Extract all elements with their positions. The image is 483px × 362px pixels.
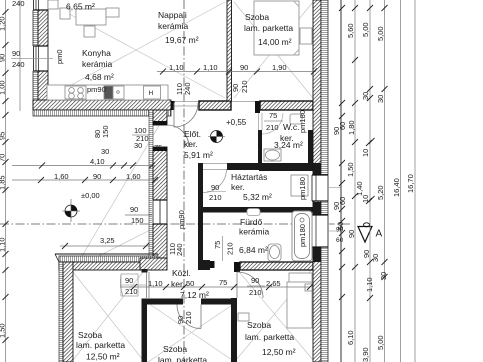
svg-text:90: 90	[240, 63, 248, 72]
svg-text:60: 60	[338, 122, 347, 130]
door jambs	[153, 121, 167, 125]
svg-text:210: 210	[249, 288, 262, 297]
washing machine haztartas	[291, 175, 308, 196]
room label szoba top	[244, 12, 293, 47]
svg-text:1,10: 1,10	[0, 237, 7, 252]
svg-text:210: 210	[125, 287, 138, 296]
wall left exterior	[11, 0, 53, 110]
wall kitchen bottom	[33, 100, 171, 116]
svg-text:ker.: ker.	[231, 182, 245, 192]
wall right exterior	[311, 0, 341, 362]
svg-text:210: 210	[184, 311, 193, 324]
svg-text:ker.: ker.	[171, 279, 185, 289]
svg-text:150: 150	[131, 216, 144, 225]
rotated size labels	[55, 49, 307, 324]
svg-text:240: 240	[175, 243, 184, 256]
L corner furdo bottom left	[198, 260, 210, 270]
bathtub	[292, 211, 312, 261]
window left top y0-10	[32, 0, 49, 10]
svg-text:30: 30	[371, 254, 380, 262]
wall terrace bottom	[55, 254, 158, 270]
svg-text:10: 10	[361, 149, 370, 157]
svg-text:75: 75	[269, 111, 277, 120]
right chain rotated labels	[332, 22, 415, 362]
svg-text:60: 60	[338, 197, 347, 205]
svg-text:50: 50	[186, 279, 194, 288]
bed top-right	[254, 1, 312, 55]
svg-text:7,12 m²: 7,12 m²	[180, 290, 209, 300]
svg-text:90: 90	[130, 205, 138, 214]
svg-text:90: 90	[362, 250, 371, 258]
svg-text:210: 210	[209, 193, 222, 202]
svg-text:Szoba: Szoba	[245, 12, 269, 22]
svg-text:5,32 m²: 5,32 m²	[243, 192, 272, 202]
wc washbasin	[264, 149, 281, 161]
window left y46-71	[32, 46, 49, 71]
svg-text:16,40: 16,40	[392, 178, 401, 197]
svg-text:1,80: 1,80	[347, 120, 356, 135]
svg-text:3,25: 3,25	[100, 236, 115, 245]
radiator	[238, 313, 249, 321]
svg-text:95: 95	[0, 132, 7, 140]
left dimension chains	[6, 0, 21, 362]
wardrobe room right	[289, 273, 312, 283]
svg-text:lam. parketta: lam. parketta	[245, 332, 294, 342]
svg-text:90: 90	[231, 84, 240, 92]
wall passage left lower join	[140, 258, 167, 270]
svg-text:pm90: pm90	[87, 85, 106, 94]
window right furdo	[311, 215, 329, 247]
svg-text:5,00: 5,00	[376, 335, 385, 350]
svg-text:30: 30	[101, 147, 109, 156]
svg-text:75: 75	[154, 143, 162, 152]
svg-text:19,67 m²: 19,67 m²	[165, 35, 199, 45]
svg-text:90: 90	[125, 276, 133, 285]
svg-text:6,84 m²: 6,84 m²	[239, 245, 268, 255]
window in middle wall y200-224	[152, 200, 168, 224]
svg-text:240: 240	[12, 0, 25, 8]
svg-text:Fürdő: Fürdő	[240, 217, 262, 227]
door room-left arc	[142, 269, 148, 273]
svg-text:1,10: 1,10	[169, 63, 184, 72]
svg-text:6,65 m²: 6,65 m²	[66, 2, 95, 12]
svg-text:210: 210	[266, 123, 279, 132]
door into haztartas arc	[203, 169, 227, 193]
terrace dims	[12, 147, 158, 249]
svg-text:1,00: 1,00	[0, 80, 7, 95]
svg-text:1,20: 1,20	[0, 16, 7, 31]
svg-text:A: A	[376, 229, 383, 240]
svg-text:30: 30	[361, 92, 370, 100]
svg-text:1,10: 1,10	[148, 279, 163, 288]
wall szoba-top left	[227, 0, 232, 101]
svg-text:1,40: 1,40	[355, 181, 364, 196]
room label kozl	[171, 268, 209, 300]
svg-text:60: 60	[336, 237, 344, 244]
svg-text:12,50 m²: 12,50 m²	[262, 347, 296, 357]
svg-text:1,85: 1,85	[0, 175, 7, 190]
wall wc left	[258, 113, 313, 165]
room label furdo	[239, 217, 270, 255]
svg-text:75: 75	[219, 278, 227, 287]
wall bottom-left exterior	[55, 254, 73, 362]
section marker A	[358, 223, 383, 242]
wc cistern box	[290, 114, 302, 124]
room label szoba bottom-right	[245, 320, 296, 357]
wall corridor bottom	[142, 299, 238, 305]
floor diagonals	[47, 2, 313, 362]
svg-text:Közl.: Közl.	[172, 268, 191, 278]
right chain ticks	[339, 5, 388, 301]
svg-text:1,10: 1,10	[365, 277, 374, 292]
svg-text:1,90: 1,90	[272, 63, 287, 72]
svg-text:3,24 m²: 3,24 m²	[274, 140, 303, 150]
room label elot	[184, 129, 213, 160]
svg-text:240: 240	[12, 60, 25, 69]
wall middle vertical (terrace side)	[149, 110, 168, 258]
svg-text:210: 210	[226, 242, 235, 255]
room label szoba bottom-center	[158, 344, 207, 362]
svg-text:lam. parketta: lam. parketta	[158, 355, 207, 362]
svg-text:1,10: 1,10	[203, 63, 218, 72]
right dimension chain lines	[341, 0, 415, 362]
svg-text:Szoba: Szoba	[78, 330, 102, 340]
wall rooms right divider	[231, 298, 237, 362]
entrance door arc	[174, 103, 198, 127]
svg-text:14,00 m²: 14,00 m²	[258, 37, 292, 47]
svg-text:+0,55: +0,55	[226, 118, 247, 127]
svg-text:2,65: 2,65	[266, 279, 281, 288]
bed room right	[287, 282, 312, 328]
svg-text:90: 90	[211, 183, 219, 192]
corridor dim row	[120, 278, 313, 290]
door corridor/room-center arc	[177, 305, 201, 329]
svg-text:4,68 m²: 4,68 m²	[85, 72, 114, 82]
svg-text:Szoba: Szoba	[247, 320, 271, 330]
svg-text:70: 70	[0, 154, 7, 162]
svg-text:30: 30	[376, 95, 385, 103]
door size labels boxed	[12, 0, 283, 297]
svg-text:lam. parketta: lam. parketta	[244, 23, 293, 33]
svg-text:90: 90	[251, 276, 259, 285]
svg-text:kerámia: kerámia	[82, 59, 113, 69]
svg-text:75: 75	[213, 241, 222, 249]
svg-text:5,60: 5,60	[346, 23, 355, 38]
section line A horizontal	[0, 223, 352, 225]
svg-text:10: 10	[361, 195, 370, 203]
level marker hall	[208, 131, 225, 143]
svg-text:kerámia: kerámia	[239, 227, 270, 237]
kitchen counter	[47, 85, 168, 100]
svg-text:5,20: 5,20	[376, 185, 385, 200]
svg-text:pm90: pm90	[177, 210, 186, 229]
svg-text:90: 90	[347, 230, 356, 238]
furdo washbasin	[268, 244, 281, 261]
svg-text:240: 240	[183, 82, 192, 95]
svg-text:ker.: ker.	[184, 139, 198, 149]
svg-text:5,91 m²: 5,91 m²	[184, 150, 213, 160]
svg-text:210: 210	[240, 80, 249, 93]
svg-text:16,70: 16,70	[406, 174, 415, 193]
svg-text:lam. parketta: lam. parketta	[76, 340, 125, 350]
room label nappali	[158, 10, 199, 45]
door room-right arc	[237, 272, 263, 298]
window right haztartas	[311, 175, 329, 201]
svg-text:30: 30	[379, 272, 388, 280]
room label szoba bottom-left	[76, 330, 125, 362]
svg-text:±0,00: ±0,00	[81, 191, 100, 200]
wall passage right vertical	[198, 163, 203, 260]
svg-text:Előt.: Előt.	[184, 129, 201, 139]
wall hall/haztartas	[203, 163, 313, 193]
wall hall top (interior load bearing)	[171, 101, 313, 113]
svg-text:H: H	[149, 90, 154, 97]
svg-text:4,10: 4,10	[90, 157, 105, 166]
svg-text:12,50 m²: 12,50 m²	[86, 352, 120, 362]
svg-text:pm180: pm180	[298, 177, 307, 200]
svg-text:kerámia: kerámia	[158, 21, 189, 31]
svg-text:pm180: pm180	[298, 110, 307, 133]
room label wc	[274, 122, 303, 150]
svg-text:Konyha: Konyha	[82, 48, 111, 58]
svg-text:90: 90	[12, 49, 20, 58]
svg-text:Háztartás: Háztartás	[231, 172, 267, 182]
svg-text:5,00: 5,00	[361, 22, 370, 37]
svg-text:pm180: pm180	[298, 224, 307, 247]
svg-text:5,00: 5,00	[376, 26, 385, 41]
svg-text:6,10: 6,10	[346, 330, 355, 345]
top dimension row y68	[157, 63, 317, 75]
svg-text:1,50: 1,50	[346, 162, 355, 177]
door arc middle wall into hall	[167, 125, 189, 147]
wall haztartas/furdo	[202, 207, 313, 213]
section line vertical	[183, 0, 185, 362]
svg-text:Nappali: Nappali	[158, 10, 187, 20]
room label konyha	[82, 48, 114, 82]
svg-text:3,90: 3,90	[361, 347, 370, 362]
wall wc bottom	[259, 165, 313, 171]
svg-text:90: 90	[336, 227, 344, 234]
wall rooms left divider	[142, 270, 148, 362]
dining table	[60, 8, 119, 37]
svg-text:30: 30	[134, 141, 142, 150]
wall furdo bottom / room top right	[210, 236, 313, 272]
tall cabinet	[48, 0, 58, 9]
svg-text:1,50: 1,50	[0, 323, 7, 338]
svg-text:pm0: pm0	[55, 49, 64, 64]
level marker terrace	[62, 199, 80, 222]
svg-text:90: 90	[0, 54, 7, 62]
svg-text:150: 150	[101, 125, 110, 138]
room label haztartas	[231, 172, 272, 202]
svg-text:Szoba: Szoba	[163, 344, 187, 354]
